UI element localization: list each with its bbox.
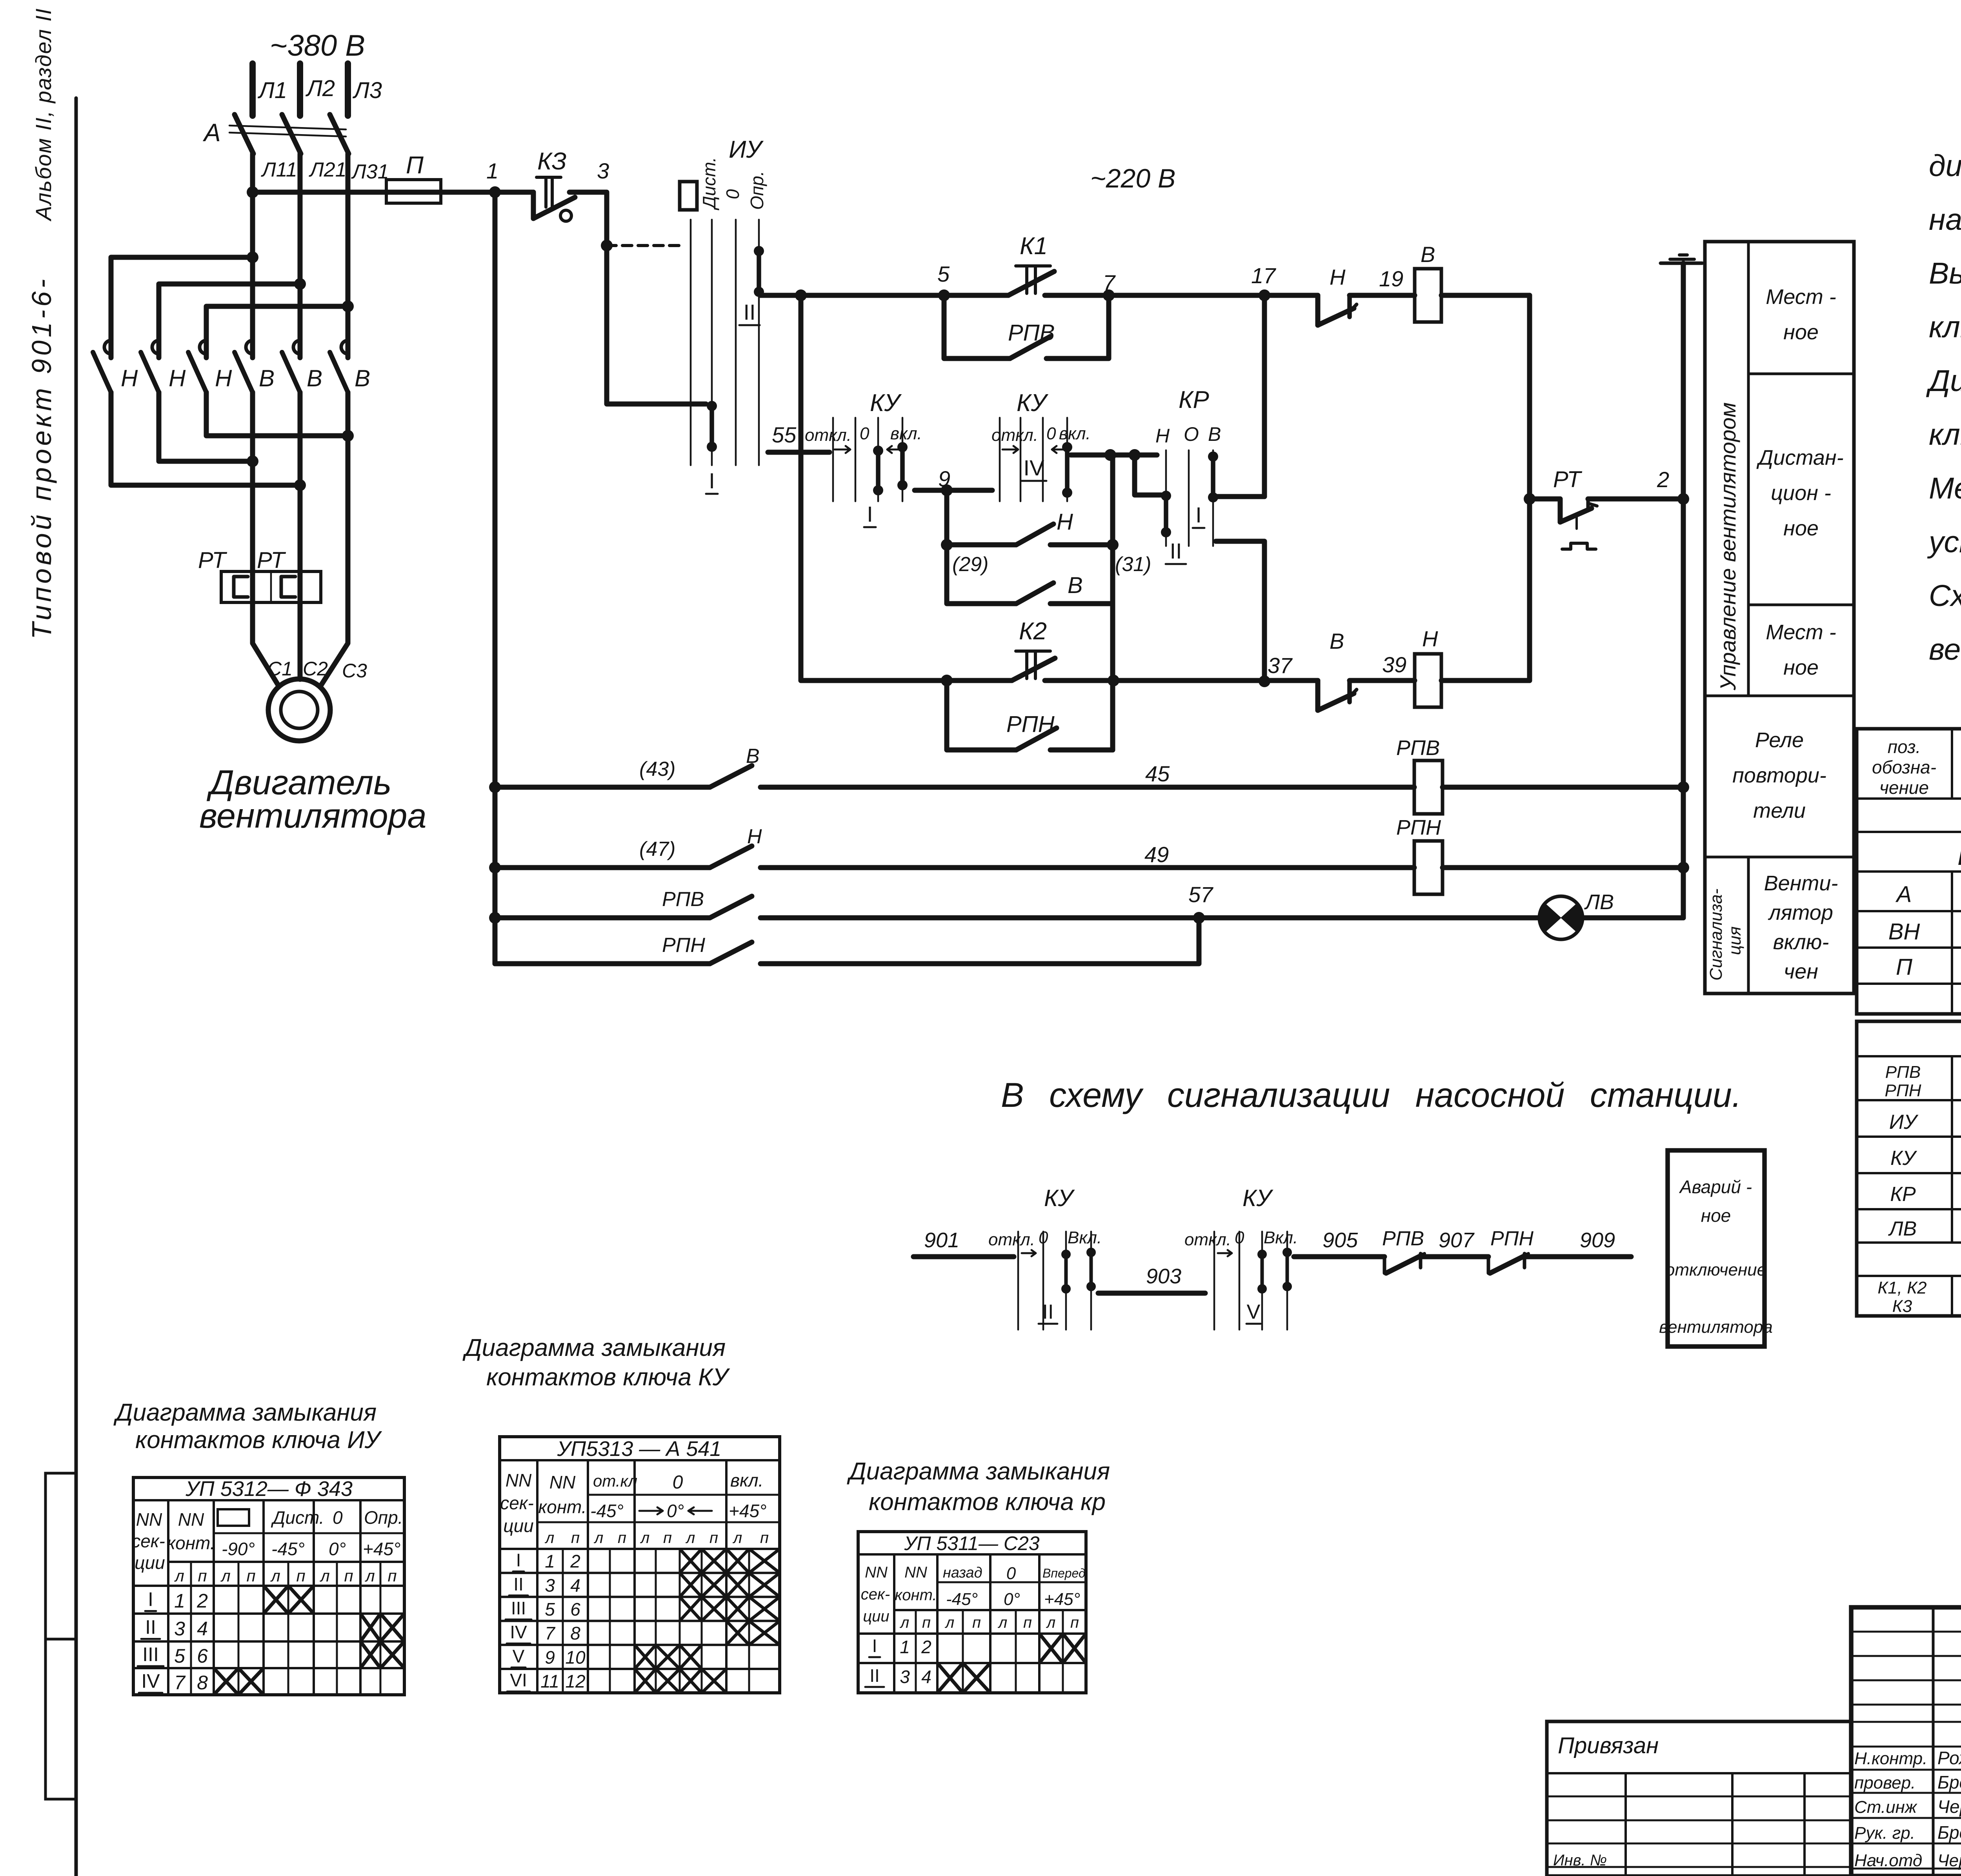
aux contact В parallel rung xyxy=(947,545,1016,604)
svg-text:С3: С3 xyxy=(342,660,367,682)
КУ1 direction arrows xyxy=(835,446,850,453)
breaker A trip bar xyxy=(229,126,346,129)
svg-text:л: л xyxy=(174,1567,184,1585)
svg-text:РТ: РТ xyxy=(257,548,286,573)
svg-text:II: II xyxy=(145,1616,156,1638)
wire К1 rung from ИУ xyxy=(760,293,1008,298)
wire phase1 to thermal element xyxy=(250,392,255,571)
svg-text:5: 5 xyxy=(937,262,950,286)
svg-text:5: 5 xyxy=(545,1599,555,1619)
svg-text:откл.: откл. xyxy=(988,1230,1035,1249)
svg-text:1: 1 xyxy=(174,1590,185,1612)
svg-text:~220 В: ~220 В xyxy=(1090,164,1175,193)
svg-text:Управление вентилятором: Управление вентилятором xyxy=(1715,402,1740,691)
wire lower cross link H2 output xyxy=(159,392,251,461)
svg-text:Н: Н xyxy=(121,365,138,391)
svg-text:Л31: Л31 xyxy=(351,160,389,183)
ground symbol xyxy=(1679,253,1687,257)
svg-text:6: 6 xyxy=(197,1645,208,1667)
contactor contact В1 xyxy=(246,340,253,354)
svg-text:РПВ: РПВ xyxy=(1008,320,1055,346)
svg-text:сек-: сек- xyxy=(131,1531,165,1551)
svg-text:РПН: РПН xyxy=(1490,1227,1534,1250)
svg-text:К3: К3 xyxy=(1892,1297,1912,1316)
node 1 xyxy=(489,186,501,198)
svg-text:I: I xyxy=(148,1589,153,1610)
svg-text:Л11: Л11 xyxy=(261,158,297,181)
svg-text:(31): (31) xyxy=(1115,553,1151,576)
svg-text:п: п xyxy=(1070,1614,1079,1631)
svg-text:п: п xyxy=(344,1567,353,1585)
КР contact I (В) xyxy=(1208,451,1218,462)
dashed mechanical link to ИУ handle xyxy=(607,244,683,247)
thermal heater element phase2 xyxy=(281,577,295,597)
svg-text:КУ: КУ xyxy=(1242,1185,1273,1211)
svg-text:ное: ное xyxy=(1701,1205,1731,1226)
svg-text:Опр.: Опр. xyxy=(364,1507,403,1528)
svg-text:КР: КР xyxy=(1890,1183,1916,1206)
thermal relay PT heater box xyxy=(221,571,321,602)
svg-text:17: 17 xyxy=(1251,263,1276,288)
svg-text:~380 В: ~380 В xyxy=(270,29,365,62)
svg-text:0: 0 xyxy=(860,424,870,443)
junction phase2 / cross wire xyxy=(294,278,306,290)
svg-text:909: 909 xyxy=(1580,1228,1615,1252)
svg-text:2: 2 xyxy=(1657,467,1669,492)
svg-text:NN: NN xyxy=(904,1564,927,1581)
svg-text:В: В xyxy=(355,365,370,391)
wire coil В to right vertical xyxy=(1441,293,1530,298)
wire 43-45 РПВ coil line xyxy=(489,781,501,793)
svg-text:NN: NN xyxy=(865,1564,888,1581)
svg-text:Мест -: Мест - xyxy=(1766,285,1836,309)
svg-text:отключение: отключение xyxy=(1665,1260,1766,1279)
svg-text:чение: чение xyxy=(1879,777,1929,798)
svg-text:л: л xyxy=(640,1529,650,1547)
svg-text:II: II xyxy=(870,1665,880,1686)
svg-text:вентилятора.: вентилятора. xyxy=(1929,633,1961,666)
junction phase1 / cross wire xyxy=(247,251,258,263)
wire 57 lamp line xyxy=(489,912,501,924)
svg-text:П: П xyxy=(406,152,424,179)
svg-text:1: 1 xyxy=(900,1637,910,1657)
svg-text:л: л xyxy=(1046,1614,1056,1631)
svg-text:-90°: -90° xyxy=(222,1539,255,1559)
svg-text:ключом КУ.: ключом КУ. xyxy=(1929,418,1961,451)
stamp vertical dividers left part xyxy=(1932,1607,1935,1876)
wire phase2 down to contactor xyxy=(298,154,303,358)
svg-text:Вкл.: Вкл. xyxy=(1264,1228,1298,1247)
svg-text:Л1: Л1 xyxy=(257,78,287,103)
svg-text:ное: ное xyxy=(1783,517,1819,540)
svg-text:п: п xyxy=(246,1567,255,1585)
ИУ contact column lines xyxy=(690,220,692,465)
node 7 xyxy=(1103,289,1115,301)
wire 909 xyxy=(1524,1254,1631,1259)
svg-text:КЗ: КЗ xyxy=(537,148,567,175)
svg-text:п: п xyxy=(709,1529,718,1547)
svg-text:контактов ключа ИУ: контактов ключа ИУ xyxy=(135,1427,382,1454)
svg-text:п: п xyxy=(972,1614,981,1631)
junction phase1 / control tap xyxy=(247,186,258,198)
svg-text:ное: ное xyxy=(1783,656,1819,679)
svg-text:Диаграмма замыкания: Диаграмма замыкания xyxy=(113,1399,377,1426)
wire 31 vertical xyxy=(1110,455,1115,750)
wire phase2 to thermal element xyxy=(298,392,303,571)
svg-text:0: 0 xyxy=(1006,1564,1016,1583)
diagram table КУ frame xyxy=(500,1437,780,1693)
svg-text:11: 11 xyxy=(540,1671,559,1692)
svg-text:NN: NN xyxy=(549,1472,576,1492)
svg-text:4: 4 xyxy=(197,1618,208,1640)
svg-text:7: 7 xyxy=(1103,270,1116,295)
wire КУ2 output xyxy=(1071,453,1157,458)
svg-text:NN: NN xyxy=(136,1509,162,1530)
svg-text:19: 19 xyxy=(1379,266,1403,291)
svg-text:ное: ное xyxy=(1783,320,1819,344)
svg-text:55: 55 xyxy=(772,422,797,447)
svg-text:л: л xyxy=(319,1567,330,1585)
svg-text:I: I xyxy=(867,502,873,526)
svg-text:В: В xyxy=(259,365,275,391)
svg-text:ключом ИУ.: ключом ИУ. xyxy=(1929,310,1961,344)
svg-text:Рохлин: Рохлин xyxy=(1937,1748,1961,1768)
svg-text:п: п xyxy=(571,1529,580,1547)
svg-text:I: I xyxy=(872,1636,877,1656)
svg-text:контактов ключа кр: контактов ключа кр xyxy=(869,1488,1106,1516)
svg-text:п: п xyxy=(387,1567,397,1585)
svg-text:л: л xyxy=(364,1567,375,1585)
wire lower cross link H1 output xyxy=(111,392,298,485)
svg-text:чен: чен xyxy=(1784,960,1818,983)
wire fuse to node 1 xyxy=(441,190,533,195)
left control bus (node 1 down) xyxy=(493,192,498,964)
svg-text:В: В xyxy=(1208,423,1221,445)
wire РПН aux line to node 57 xyxy=(495,961,710,966)
svg-text:тели: тели xyxy=(1753,799,1806,822)
contactor contact Н1 xyxy=(104,340,111,354)
right coil return vertical xyxy=(1527,295,1532,681)
wire 9 xyxy=(915,488,992,493)
svg-text:п: п xyxy=(296,1567,305,1585)
sheet frame left border xyxy=(75,98,78,1876)
svg-text:45: 45 xyxy=(1145,761,1170,786)
breaker A pole 3 blade xyxy=(330,115,349,154)
svg-text:В: В xyxy=(307,365,322,391)
svg-text:л: л xyxy=(733,1529,742,1547)
svg-text:В: В xyxy=(1330,629,1344,653)
svg-text:3: 3 xyxy=(597,158,609,183)
node К2 right xyxy=(1108,675,1119,686)
svg-text:УП 5311— С23: УП 5311— С23 xyxy=(904,1532,1039,1554)
svg-text:IV: IV xyxy=(510,1622,527,1642)
svg-text:РТ: РТ xyxy=(1553,467,1582,492)
svg-text:0: 0 xyxy=(673,1472,683,1493)
binding mark box lower xyxy=(45,1639,76,1799)
svg-text:901: 901 xyxy=(924,1228,959,1252)
svg-text:вкл.: вкл. xyxy=(1059,424,1091,443)
svg-text:9: 9 xyxy=(938,466,950,491)
parts table lower box xyxy=(1857,1021,1961,1316)
svg-text:Н: Н xyxy=(169,365,186,391)
svg-text:от.кл: от.кл xyxy=(593,1472,637,1490)
svg-text:Н: Н xyxy=(747,825,762,848)
node 37 xyxy=(1259,675,1270,687)
svg-text:-45°: -45° xyxy=(271,1539,305,1559)
svg-text:П: П xyxy=(1896,954,1913,980)
thermal heater element phase1 xyxy=(234,577,248,597)
svg-text:0: 0 xyxy=(722,189,743,199)
svg-text:л: л xyxy=(270,1567,280,1585)
svg-text:ИУ: ИУ xyxy=(1889,1111,1919,1134)
КУ1 contact pair xyxy=(873,446,883,456)
svg-text:Диаграмма замыкания: Диаграмма замыкания xyxy=(462,1334,726,1361)
svg-text:II: II xyxy=(513,1574,524,1594)
svg-text:Дистан-: Дистан- xyxy=(1756,446,1843,469)
svg-text:РПВ: РПВ xyxy=(1885,1063,1921,1082)
svg-text:1: 1 xyxy=(486,158,498,183)
svg-text:IV: IV xyxy=(1024,455,1045,480)
svg-text:(43): (43) xyxy=(639,758,675,781)
svg-text:0: 0 xyxy=(333,1507,343,1528)
svg-text:3: 3 xyxy=(174,1618,185,1640)
diagram table ИУ X marks xyxy=(264,1586,288,1614)
svg-text:Бреслов: Бреслов xyxy=(1937,1822,1961,1843)
svg-text:3: 3 xyxy=(900,1667,910,1687)
svg-text:обозна-: обозна- xyxy=(1872,757,1936,777)
svg-text:II: II xyxy=(743,300,755,324)
junction phase3 / cross wire xyxy=(342,300,354,312)
svg-text:КУ: КУ xyxy=(1890,1147,1917,1170)
svg-text:905: 905 xyxy=(1322,1228,1358,1252)
svg-text:вкл.: вкл. xyxy=(890,424,922,443)
svg-text:насосной станции и мес: насосной станции и местное. xyxy=(1929,203,1961,237)
svg-text:Н: Н xyxy=(215,365,232,391)
svg-text:II: II xyxy=(1170,539,1182,563)
svg-text:л: л xyxy=(945,1614,955,1631)
phase bus stub Л2 xyxy=(297,64,303,116)
svg-text:конт.: конт. xyxy=(895,1587,937,1604)
stamp attachment box Привязан xyxy=(1547,1721,1851,1876)
svg-text:6: 6 xyxy=(570,1599,580,1619)
wire К2 branch vertical xyxy=(799,295,804,681)
svg-text:повтори-: повтори- xyxy=(1732,764,1826,787)
svg-text:вклю-: вклю- xyxy=(1773,930,1829,954)
svg-text:7: 7 xyxy=(545,1623,555,1643)
svg-text:903: 903 xyxy=(1146,1265,1181,1288)
svg-text:назад: назад xyxy=(943,1565,982,1581)
svg-text:(47): (47) xyxy=(639,838,675,861)
svg-text:Типовой проект 901-6-: Типовой проект 901-6- xyxy=(26,276,57,639)
svg-text:ИУ: ИУ xyxy=(729,136,764,163)
svg-text:откл.: откл. xyxy=(1184,1230,1231,1249)
wire cross link to reverse contact H1 xyxy=(111,257,251,358)
svg-text:Диаграмма замыкания: Диаграмма замыкания xyxy=(847,1458,1110,1485)
wire 905 xyxy=(1294,1254,1384,1259)
КУ2 contact xyxy=(1062,442,1072,452)
junction ИУ output / К2 branch xyxy=(795,289,807,301)
svg-text:Реле: Реле xyxy=(1755,728,1804,752)
parts table upper box xyxy=(1857,729,1961,1014)
svg-text:37: 37 xyxy=(1268,653,1293,678)
svg-text:КР: КР xyxy=(1179,386,1209,413)
breaker A pole 2 blade xyxy=(282,115,301,154)
svg-text:Сигнализа-: Сигнализа- xyxy=(1706,888,1726,981)
svg-text:ции: ции xyxy=(135,1552,165,1573)
svg-text:2: 2 xyxy=(196,1590,208,1612)
wire phase3 down to contactor xyxy=(346,154,351,358)
svg-text:п: п xyxy=(663,1529,672,1547)
svg-text:8: 8 xyxy=(197,1672,208,1694)
wire coil Н to right vertical xyxy=(1441,678,1530,683)
svg-text:конт.: конт. xyxy=(167,1533,215,1553)
svg-text:ЛВ: ЛВ xyxy=(1584,890,1614,914)
contactor contact В3 xyxy=(341,340,348,354)
svg-text:0: 0 xyxy=(1046,424,1056,443)
svg-text:Н.контр.: Н.контр. xyxy=(1854,1749,1927,1768)
svg-text:Местное управление – кнопкой: Местное управление – кнопкой ПКУ15-19. 1… xyxy=(1929,471,1961,505)
ИУ contact II (Опр side) xyxy=(754,246,764,256)
wire phase3 to motor xyxy=(321,392,348,686)
svg-text:Привязан: Привязан xyxy=(1558,1733,1659,1758)
wire phase1 heater to motor xyxy=(250,571,255,602)
svg-text:Мест -: Мест - xyxy=(1766,620,1836,644)
wire lower cross link H3 output xyxy=(206,392,346,436)
svg-text:0°: 0° xyxy=(667,1501,684,1521)
svg-text:УП 5312— Ф 343: УП 5312— Ф 343 xyxy=(185,1477,353,1501)
svg-text:ВН: ВН xyxy=(1888,919,1920,944)
svg-text:Нач.отд: Нач.отд xyxy=(1854,1851,1922,1870)
svg-text:п: п xyxy=(198,1567,207,1585)
svg-text:РПВ: РПВ xyxy=(662,888,704,911)
svg-text:ция: ция xyxy=(1725,926,1745,955)
svg-text:39: 39 xyxy=(1382,652,1406,677)
stamp main frame xyxy=(1851,1607,1961,1876)
svg-text:л: л xyxy=(545,1529,555,1547)
svg-text:С1: С1 xyxy=(267,658,293,680)
svg-text:-45°: -45° xyxy=(946,1590,978,1609)
svg-text:Опр.: Опр. xyxy=(747,171,767,210)
КР contact column lines xyxy=(1165,450,1167,546)
svg-text:Блок управления РБУ5401 -: Блок управления РБУ5401 - 13 А2Д xyxy=(1957,840,1961,871)
diagram table КР frame xyxy=(858,1532,1086,1693)
svg-text:Н: Н xyxy=(1057,509,1073,535)
svg-text:контактов ключа КУ: контактов ключа КУ xyxy=(486,1364,730,1391)
wire 9 down to rung 29 xyxy=(944,490,950,545)
diagram table КР X marks xyxy=(1039,1634,1063,1663)
svg-text:л: л xyxy=(998,1614,1008,1631)
svg-text:0°: 0° xyxy=(329,1539,346,1559)
svg-text:NN: NN xyxy=(506,1470,532,1490)
svg-text:ции: ции xyxy=(503,1516,533,1536)
svg-text:907: 907 xyxy=(1439,1228,1475,1252)
motor M circle xyxy=(268,679,330,741)
wire 47-49 РПН coil line xyxy=(489,862,501,873)
svg-text:49: 49 xyxy=(1144,842,1169,867)
svg-text:III: III xyxy=(142,1643,159,1665)
svg-text:л: л xyxy=(686,1529,695,1547)
svg-text:КУ: КУ xyxy=(1017,389,1049,417)
right ground bus xyxy=(1681,263,1686,918)
svg-text:поз.: поз. xyxy=(1888,737,1921,757)
svg-text:Дистанционное управление о: Дистанционное управление осуществляется xyxy=(1926,364,1961,398)
wire 907 xyxy=(1420,1254,1488,1259)
svg-text:1: 1 xyxy=(545,1551,555,1572)
svg-text:II: II xyxy=(1042,1301,1054,1323)
svg-text:В: В xyxy=(746,745,760,768)
svg-text:п: п xyxy=(1023,1614,1032,1631)
svg-text:Вперед: Вперед xyxy=(1042,1566,1086,1580)
aux contact Н rung 29 xyxy=(941,539,953,551)
svg-text:К1: К1 xyxy=(1020,233,1048,260)
svg-text:V: V xyxy=(513,1646,525,1666)
КР contact II (Н) xyxy=(1161,491,1171,501)
svg-text:Л3: Л3 xyxy=(352,78,382,103)
binding mark box upper xyxy=(45,1473,76,1639)
svg-text:Дист.: Дист. xyxy=(271,1507,324,1528)
svg-text:РТ: РТ xyxy=(198,548,227,573)
svg-text:дистанционное со щита: дистанционное со щита управления ЩУ в xyxy=(1929,149,1961,183)
svg-text:10: 10 xyxy=(565,1647,586,1667)
wire К2 rung xyxy=(801,678,1012,683)
svg-text:п: п xyxy=(618,1529,626,1547)
svg-text:л: л xyxy=(220,1567,231,1585)
КУ1 contact column lines xyxy=(832,418,834,501)
phase bus stub Л1 xyxy=(249,64,256,116)
svg-text:Бреслов.: Бреслов. xyxy=(1937,1772,1961,1792)
svg-text:Н: Н xyxy=(1422,626,1438,651)
svg-text:III: III xyxy=(511,1598,526,1618)
svg-text:Схема предусматривает реве: Схема предусматривает реверс двигателя xyxy=(1929,579,1961,613)
breaker A pole 1 blade xyxy=(235,115,253,154)
wire cross link to reverse contact H3 xyxy=(206,306,346,358)
parts table column Поз divider xyxy=(1951,729,1953,799)
КУ2 contact column lines xyxy=(999,418,1001,501)
svg-text:сек-: сек- xyxy=(500,1493,534,1513)
contactor contact Н3 xyxy=(200,340,206,354)
svg-text:РПН: РПН xyxy=(1885,1081,1921,1100)
svg-text:+45°: +45° xyxy=(363,1539,400,1559)
svg-text:Л21: Л21 xyxy=(309,158,347,181)
svg-text:В: В xyxy=(1421,242,1435,267)
svg-text:О: О xyxy=(1184,423,1199,445)
svg-text:сек-: сек- xyxy=(861,1586,890,1603)
svg-text:п: п xyxy=(922,1614,931,1631)
svg-text:Инв. №: Инв. № xyxy=(1553,1852,1607,1869)
wire node3 down to ИУ switch xyxy=(569,192,706,404)
svg-text:лятор: лятор xyxy=(1768,901,1833,924)
ИУ contact I (Дист side) xyxy=(707,401,717,411)
svg-text:7: 7 xyxy=(174,1672,186,1694)
node 5 xyxy=(938,289,950,301)
zone table inner divider vertical upper xyxy=(1747,242,1750,696)
svg-text:Вкл.: Вкл. xyxy=(1068,1228,1102,1247)
wire phase1 down to contactor xyxy=(250,154,255,358)
diagram table КУ X marks xyxy=(680,1549,702,1573)
wire КР-I to node 17 branch xyxy=(1216,494,1264,499)
svg-text:57: 57 xyxy=(1188,882,1213,907)
svg-text:9: 9 xyxy=(545,1647,555,1667)
zone table inner divider vertical lower xyxy=(1747,857,1750,993)
junction РТ branch xyxy=(1524,493,1535,505)
svg-text:VI: VI xyxy=(510,1670,527,1690)
svg-text:л: л xyxy=(900,1614,910,1631)
wire phase2 heater to motor xyxy=(298,571,303,602)
svg-text:12: 12 xyxy=(565,1671,585,1692)
svg-text:откл.: откл. xyxy=(991,426,1038,445)
svg-text:РПН: РПН xyxy=(662,934,705,957)
svg-text:цион -: цион - xyxy=(1771,481,1831,505)
